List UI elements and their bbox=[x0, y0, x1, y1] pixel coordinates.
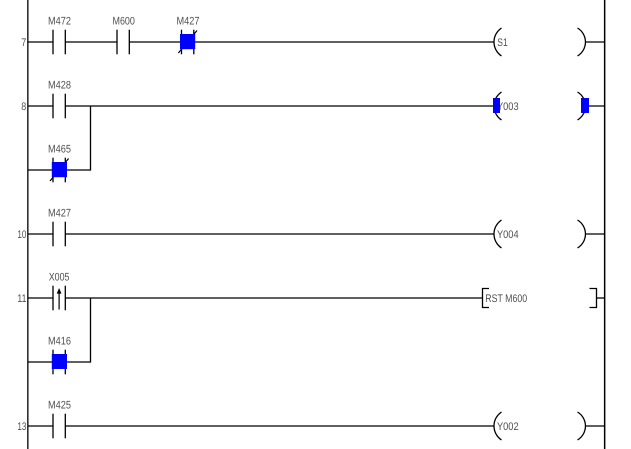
contact M472 (NO) bbox=[52, 30, 54, 55]
wire rung8 M428 to coil Y003 bbox=[65, 105, 494, 107]
svg-text:8: 8 bbox=[21, 101, 26, 113]
wire rung11 bracket to rail bbox=[597, 297, 605, 299]
svg-text:Y002: Y002 bbox=[497, 421, 519, 433]
svg-text:7: 7 bbox=[21, 37, 26, 49]
wire rung11 rail to X005 bbox=[28, 297, 54, 299]
wire branch M416 to junction bbox=[65, 361, 91, 363]
branch junction vertical rung11 bbox=[90, 298, 92, 362]
wire rung10 M427b to coil Y004 bbox=[65, 233, 494, 235]
wire rung13 coil to rail bbox=[585, 425, 604, 427]
wire branch rail to M465 bbox=[28, 169, 54, 171]
svg-text:M472: M472 bbox=[48, 16, 71, 28]
contact M416 ON highlight bbox=[52, 354, 67, 369]
contact M427 ON highlight bbox=[180, 34, 195, 49]
wire rung7 M600 to M427 bbox=[129, 41, 182, 43]
branch junction vertical rung8 bbox=[90, 106, 92, 170]
svg-text:M428: M428 bbox=[48, 80, 71, 92]
coil Y004 right arc bbox=[578, 220, 586, 248]
wire branch rail to M416 bbox=[28, 361, 54, 363]
wire rung13 M425 to coil Y002 bbox=[65, 425, 494, 427]
svg-text:M416: M416 bbox=[48, 336, 71, 348]
svg-text:Y004: Y004 bbox=[497, 229, 519, 241]
coil S1 left arc bbox=[494, 28, 502, 56]
wire rung8 rail to M428 bbox=[28, 105, 54, 107]
contact M425 (NO) bbox=[52, 414, 54, 439]
svg-text:10: 10 bbox=[17, 229, 26, 241]
svg-text:M600: M600 bbox=[113, 16, 135, 28]
coil Y003 ON highlight left bbox=[493, 98, 500, 113]
coil Y002 right arc bbox=[578, 412, 586, 440]
contact M427 (NC) bbox=[181, 30, 183, 55]
coil Y003 ON highlight right bbox=[581, 98, 589, 113]
contact M465 (NC) bbox=[52, 158, 54, 183]
svg-text:M427: M427 bbox=[177, 16, 200, 28]
right power rail bbox=[604, 0, 606, 449]
contact M416 (NO) bbox=[52, 350, 54, 375]
svg-text:M425: M425 bbox=[48, 400, 71, 412]
coil Y004 left arc bbox=[494, 220, 502, 248]
svg-text:13: 13 bbox=[17, 421, 26, 433]
wire rung10 rail to M427 bbox=[28, 233, 54, 235]
svg-text:M427: M427 bbox=[48, 208, 71, 220]
svg-text:M465: M465 bbox=[48, 144, 71, 156]
wire branch M465 to junction bbox=[65, 169, 91, 171]
coil S1 right arc bbox=[578, 28, 586, 56]
coil Y002 left arc bbox=[494, 412, 502, 440]
left power rail bbox=[27, 0, 28, 449]
wire rung13 rail to M425 bbox=[28, 425, 54, 427]
coil Y003 right arc bbox=[578, 92, 586, 120]
instruction RST M600 right bracket bbox=[590, 289, 597, 308]
wire rung7 coil to rail bbox=[585, 41, 604, 43]
wire rung7 M427 to coil S1 bbox=[194, 41, 495, 43]
contact M428 (NO) bbox=[52, 94, 54, 119]
contact M427b (NO) bbox=[52, 222, 54, 247]
instruction RST M600 left bracket bbox=[483, 289, 490, 308]
svg-text:S1: S1 bbox=[497, 37, 507, 49]
svg-text:X005: X005 bbox=[49, 272, 70, 284]
wire rung11 X005 to RST box bbox=[65, 297, 482, 299]
wire rung10 coil to rail bbox=[585, 233, 604, 235]
contact M600 (NO) bbox=[116, 30, 118, 55]
wire rung7 M472 to M600 bbox=[65, 41, 117, 43]
contact M465 ON highlight bbox=[52, 162, 67, 177]
wire rung7 rail to M472 bbox=[28, 41, 54, 43]
svg-text:Y003: Y003 bbox=[497, 101, 519, 113]
svg-text:RST M600: RST M600 bbox=[485, 293, 527, 305]
svg-text:11: 11 bbox=[17, 293, 26, 305]
contact X005 (rising edge) bbox=[52, 286, 54, 311]
wire rung8 coil to rail bbox=[585, 105, 604, 107]
coil Y003 left arc bbox=[494, 92, 502, 120]
